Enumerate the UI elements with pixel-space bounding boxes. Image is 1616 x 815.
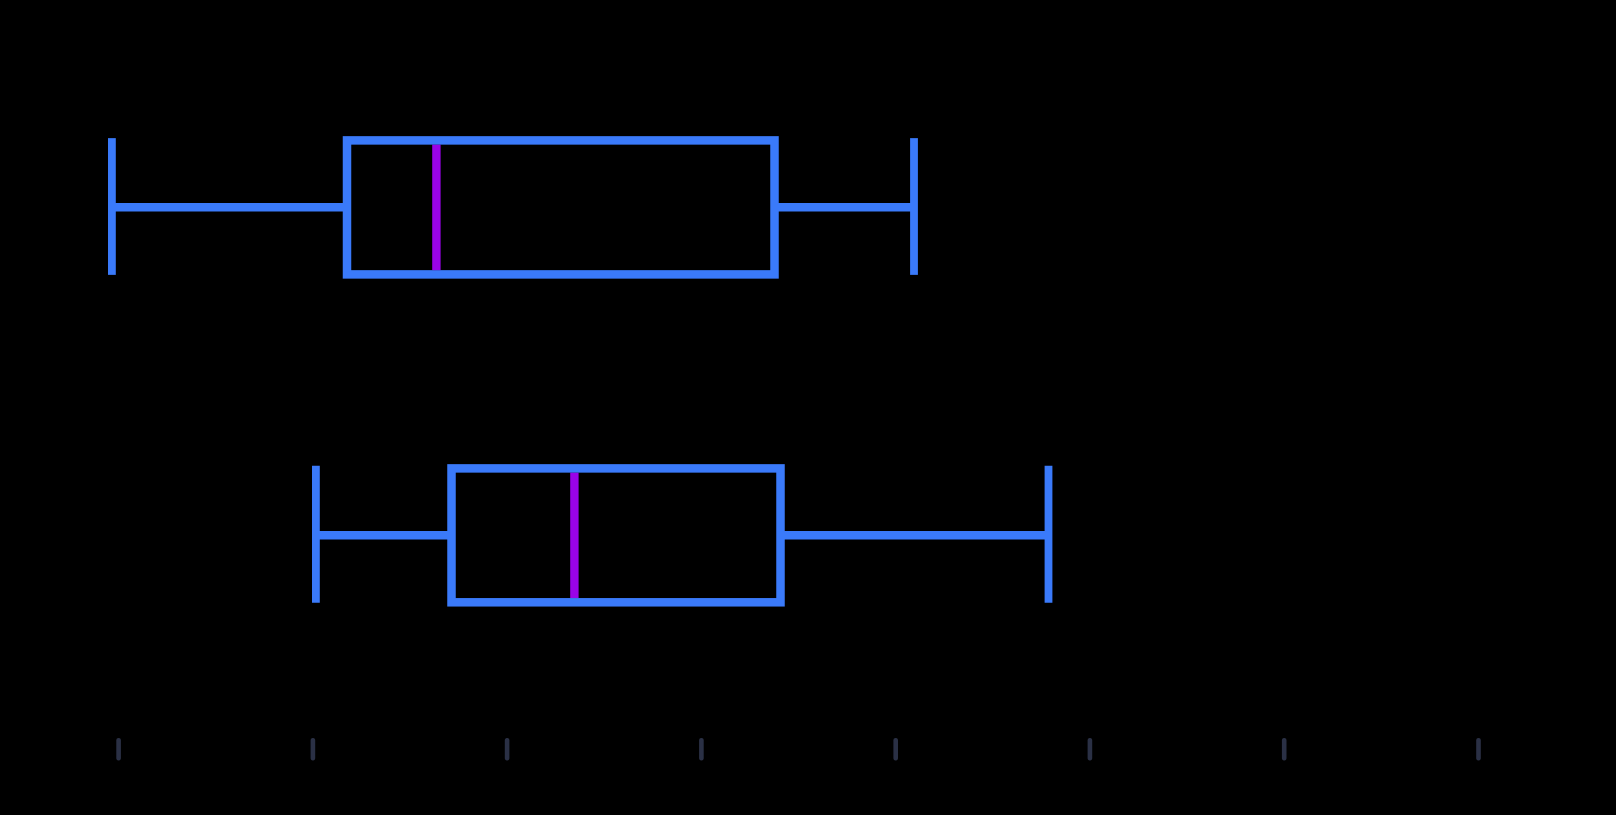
axis tick 4 bbox=[699, 740, 704, 758]
axis tick 2 bbox=[311, 740, 316, 758]
axis tick 3 bbox=[505, 740, 510, 758]
box plot 2: right whisker cap bbox=[1045, 466, 1053, 603]
box plot 2: left whisker cap bbox=[312, 466, 320, 603]
box plot 1: left whisker cap bbox=[108, 138, 116, 275]
axis tick 8 bbox=[1476, 740, 1481, 758]
axis tick 6 bbox=[1088, 740, 1093, 758]
box plot 1: median line bbox=[432, 145, 440, 270]
box plot 1: left whisker line bbox=[112, 203, 347, 212]
box plot 2: left whisker line bbox=[316, 531, 452, 540]
box plot 2: box (Q1 to Q3) bbox=[452, 468, 781, 602]
box plot 1: right whisker line bbox=[775, 203, 915, 212]
axis tick 7 bbox=[1282, 740, 1287, 758]
box plot 2: right whisker line bbox=[781, 531, 1049, 540]
box plot 2: median line bbox=[570, 473, 578, 598]
axis tick 1 bbox=[116, 740, 121, 758]
box plot 1: box (Q1 to Q3) bbox=[347, 140, 775, 274]
axis tick 5 bbox=[893, 740, 898, 758]
box plot 1: right whisker cap bbox=[910, 138, 918, 275]
